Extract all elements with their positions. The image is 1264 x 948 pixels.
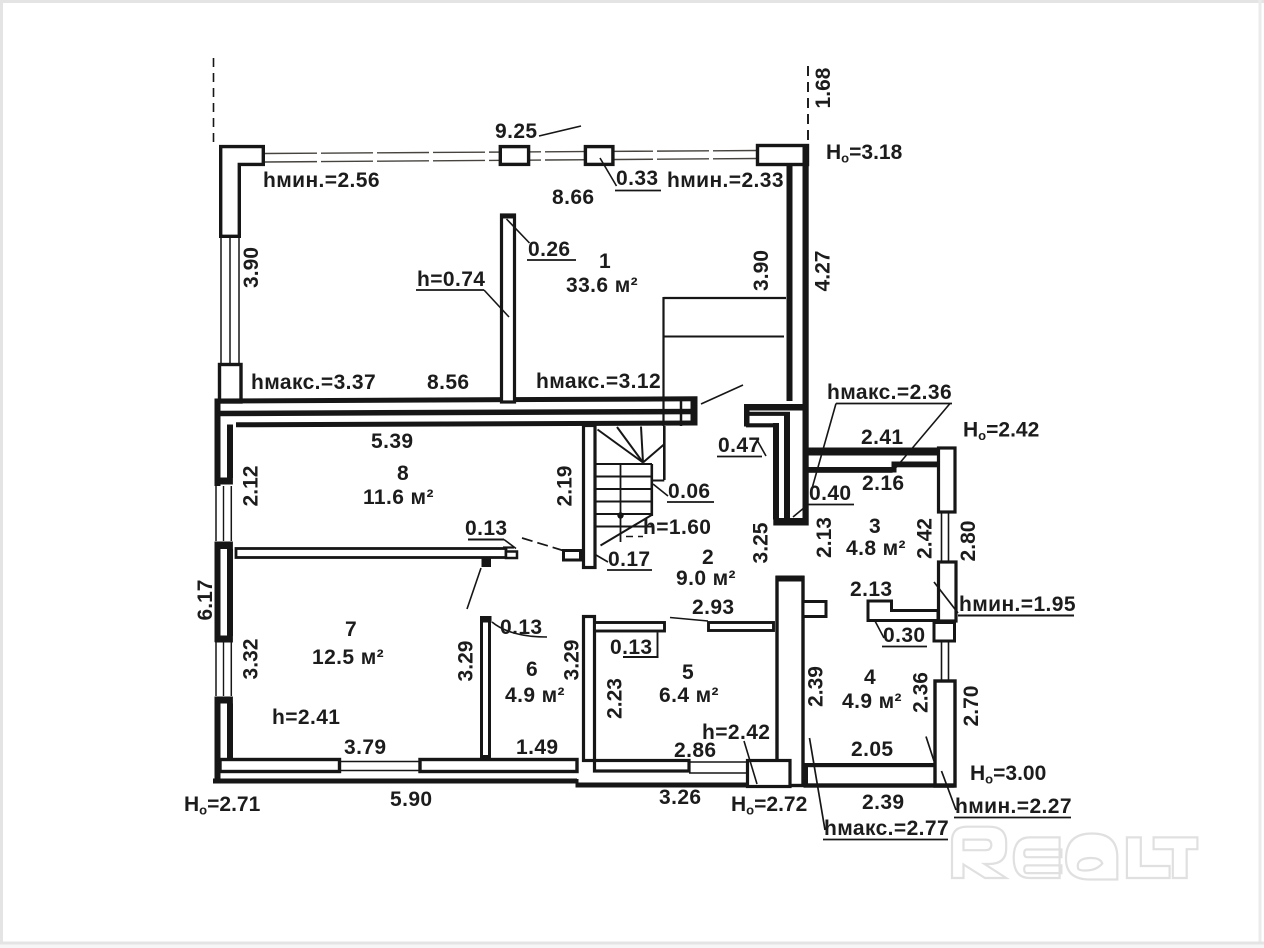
dim line 2.93 squiggle	[670, 618, 708, 622]
svg-text:4: 4	[864, 666, 876, 689]
wall west outer seg3	[215, 697, 221, 782]
leader h=0.74	[484, 290, 509, 317]
svg-text:2.12: 2.12	[240, 466, 263, 507]
wall annex south outer line	[804, 783, 955, 787]
wall room8 south step line	[503, 546, 514, 548]
window W3.90 lines	[220, 238, 222, 364]
leader 0.17	[596, 555, 608, 562]
page frame right	[1259, 0, 1262, 948]
wall south bar2	[420, 760, 577, 772]
svg-text:1.49: 1.49	[516, 736, 558, 759]
wall stair left	[584, 426, 596, 568]
wall annex south left cap	[804, 763, 809, 788]
svg-text:h=0.74: h=0.74	[417, 268, 485, 291]
svg-text:0.30: 0.30	[883, 624, 925, 647]
wall west outer seg1	[215, 399, 221, 487]
leader 0.26	[507, 219, 530, 243]
svg-text:2.13: 2.13	[850, 578, 892, 601]
svg-text:h=2.41: h=2.41	[272, 706, 340, 729]
wall south outer step	[576, 779, 579, 788]
svg-text:3.29: 3.29	[561, 640, 584, 681]
svg-text:2.86: 2.86	[674, 739, 716, 762]
svg-text:3.25: 3.25	[750, 522, 773, 563]
wall west cap2	[215, 542, 233, 550]
svg-text:2.19: 2.19	[554, 466, 577, 507]
leader hмакс.=2.36 a	[811, 404, 836, 493]
page frame top	[0, 0, 1264, 3]
wall rooms6-5	[584, 617, 595, 761]
band right cap	[691, 397, 698, 426]
svg-text:3: 3	[869, 515, 881, 538]
wall south outer line right	[577, 783, 748, 788]
underline hмин.=1.95	[958, 615, 1074, 617]
svg-text:6.4 м²: 6.4 м²	[659, 684, 719, 707]
wall annex east block	[939, 562, 957, 621]
svg-text:9.25: 9.25	[495, 120, 537, 143]
svg-text:Hо=3.18: Hо=3.18	[826, 141, 903, 166]
roof dashed line 1	[265, 151, 758, 154]
wall room1 interior cap	[500, 214, 516, 219]
roof dashed line 2	[265, 159, 758, 163]
svg-text:2.36: 2.36	[910, 672, 933, 713]
niche vertical	[662, 297, 664, 426]
underline hмакс.=2.77	[823, 839, 948, 841]
svg-text:33.6 м²: 33.6 м²	[566, 274, 638, 297]
window 3.26 lines	[689, 761, 748, 763]
wall stair tab	[564, 551, 581, 561]
window W3.32 lines	[215, 642, 217, 696]
svg-text:Hо=2.42: Hо=2.42	[963, 419, 1039, 444]
wall central upper mid line	[784, 412, 790, 520]
wall block W-left	[220, 365, 242, 403]
band line lower	[236, 423, 698, 425]
wall annex north bar	[806, 448, 955, 456]
dashed leader to stair tab	[522, 538, 563, 551]
svg-text:3.26: 3.26	[659, 786, 701, 809]
wall west cap4	[215, 697, 233, 704]
leader hмин.=1.95	[934, 582, 958, 613]
stair dash near h=1.60	[626, 536, 643, 538]
svg-text:11.6 м²: 11.6 м²	[363, 486, 434, 509]
stair opening connector	[680, 399, 683, 426]
svg-text:Hо=2.71: Hо=2.71	[184, 793, 261, 818]
svg-text:h=1.60: h=1.60	[643, 516, 711, 539]
svg-text:hмин.=1.95: hмин.=1.95	[959, 593, 1076, 616]
underline 0.33	[615, 190, 661, 192]
wall annex east top	[939, 448, 956, 512]
underline 0.17	[607, 569, 652, 571]
window 5.90 lines	[340, 761, 421, 763]
leader 2.05	[926, 737, 934, 762]
wall central upper cap	[773, 518, 808, 526]
wall west cap3	[215, 636, 233, 643]
svg-text:2.13: 2.13	[813, 517, 836, 558]
leader 0.33	[600, 158, 617, 186]
wall room8 south	[236, 549, 506, 558]
wall annex south inner line	[804, 763, 935, 767]
svg-text:2.39: 2.39	[862, 791, 904, 814]
underline h=0.74	[416, 289, 484, 291]
wall rooms7-6	[482, 618, 490, 757]
svg-text:0.33: 0.33	[616, 167, 658, 190]
page frame left	[0, 0, 3, 948]
svg-text:5.90: 5.90	[390, 788, 432, 811]
stair small step 0.06	[652, 480, 665, 482]
svg-text:hмакс.=2.77: hмакс.=2.77	[824, 817, 949, 840]
underline 0.06	[667, 501, 714, 503]
svg-text:0.13: 0.13	[465, 517, 507, 540]
svg-text:0.17: 0.17	[608, 548, 650, 571]
leader 0.13 room8	[504, 540, 516, 549]
svg-text:2.70: 2.70	[960, 686, 983, 727]
niche mid line	[664, 336, 785, 338]
leader 0.30	[875, 621, 884, 638]
svg-text:6: 6	[526, 658, 538, 681]
svg-text:2.05: 2.05	[851, 738, 893, 761]
wall room5 north left	[595, 623, 665, 632]
wall central lower top cap	[776, 576, 805, 582]
leader 0.13 into room7	[467, 568, 481, 609]
wall annex east lower	[935, 681, 955, 786]
svg-text:5: 5	[682, 661, 694, 684]
wall east inner line	[787, 164, 793, 401]
leader 0.06	[653, 484, 668, 496]
band top piece lip	[744, 404, 750, 427]
wall west outer seg2	[215, 542, 221, 643]
dashed vertical left	[213, 58, 215, 144]
page frame bottom strip	[0, 945, 1264, 948]
band top piece	[744, 404, 809, 411]
wall corner NW (L-shape)	[221, 147, 264, 237]
svg-text:hмин.=2.33: hмин.=2.33	[667, 169, 784, 192]
wall pier 9.25	[500, 147, 528, 165]
svg-text:2.80: 2.80	[957, 521, 980, 562]
svg-text:8.66: 8.66	[552, 186, 594, 209]
dashed vertical right	[807, 66, 809, 142]
svg-text:4.9 м²: 4.9 м²	[842, 690, 902, 713]
window annex east 2	[941, 642, 943, 680]
underline 0.13 room8	[468, 539, 504, 541]
svg-text:2.23: 2.23	[604, 678, 627, 719]
underline 0.47	[717, 456, 762, 458]
svg-text:0.06: 0.06	[668, 480, 710, 503]
wall west cap1	[215, 478, 233, 485]
svg-text:Hо=3.00: Hо=3.00	[970, 762, 1046, 787]
underline hмин.=2.27	[954, 817, 1071, 819]
svg-text:2.39: 2.39	[805, 666, 828, 707]
wall room3 north bar	[806, 467, 893, 473]
wall pier 0.33	[585, 147, 613, 165]
wall room3 north step	[892, 462, 897, 473]
svg-text:0.40: 0.40	[809, 482, 851, 505]
svg-text:2.16: 2.16	[862, 472, 904, 495]
leader 0.40	[793, 505, 808, 518]
wall east outer line	[803, 146, 809, 526]
leader hмакс.=2.36 b	[893, 404, 950, 472]
svg-text:7: 7	[345, 618, 357, 641]
stair right vert lower	[650, 464, 653, 516]
svg-text:3.79: 3.79	[344, 736, 386, 759]
wall central tab east	[803, 602, 826, 617]
wall room8 tab	[482, 558, 492, 567]
band line upper	[215, 399, 698, 401]
wall central lower	[777, 578, 803, 786]
svg-text:4.8 м²: 4.8 м²	[846, 537, 906, 560]
svg-text:3.32: 3.32	[240, 639, 263, 680]
wall south outer line left	[213, 779, 577, 784]
svg-text:hмин.=2.56: hмин.=2.56	[263, 169, 380, 192]
wall room8 south end piece	[506, 552, 517, 559]
underline hмакс.=2.36	[836, 403, 952, 405]
wall bar NE corner	[758, 146, 808, 165]
leader hмин.=2.27	[942, 771, 957, 810]
window annex east 1	[941, 513, 943, 562]
underline 0.13 room5	[623, 656, 659, 658]
wall south junction block	[748, 761, 791, 787]
wall room1 interior	[502, 215, 515, 402]
leader Hо=2.72	[744, 741, 757, 784]
wall central upper left line	[773, 423, 779, 520]
svg-text:3.90: 3.90	[240, 247, 263, 288]
svg-text:6.17: 6.17	[194, 580, 217, 621]
page frame bottom line	[0, 942, 1264, 945]
underline 0.40	[808, 504, 854, 506]
leader to hmax 2.36	[701, 385, 743, 404]
svg-text:hмакс.=3.12: hмакс.=3.12	[536, 370, 661, 393]
svg-text:2: 2	[702, 546, 714, 569]
svg-text:hмакс.=3.37: hмакс.=3.37	[251, 371, 376, 394]
svg-text:3.29: 3.29	[455, 641, 478, 682]
svg-text:4.27: 4.27	[812, 251, 835, 292]
wall room3 south (2.13)	[868, 601, 938, 621]
svg-text:8.56: 8.56	[427, 371, 469, 394]
stair steps	[597, 463, 653, 465]
band line middle	[215, 412, 698, 414]
svg-text:1: 1	[599, 250, 611, 273]
svg-text:0.47: 0.47	[718, 434, 760, 457]
wall south bar1	[220, 760, 340, 772]
svg-text:hмин.=2.27: hмин.=2.27	[955, 795, 1072, 818]
leader 9.25	[539, 126, 581, 136]
wall rooms7-6 top tab	[482, 616, 492, 623]
wall central top connector low	[746, 423, 778, 427]
svg-text:5.39: 5.39	[371, 430, 413, 453]
leader 0.13 room6	[492, 622, 547, 637]
svg-text:2.41: 2.41	[861, 426, 903, 449]
svg-text:hмакс.=2.36: hмакс.=2.36	[827, 381, 952, 404]
svg-text:2.93: 2.93	[692, 596, 734, 619]
svg-text:1.68: 1.68	[812, 67, 835, 108]
wall west inner seg2	[227, 549, 233, 636]
wall central top connector mid	[748, 412, 790, 416]
wall room3 north bar2	[896, 462, 939, 468]
wall room5 north right	[709, 623, 774, 631]
underline 0.30	[882, 646, 927, 648]
svg-text:2.42: 2.42	[914, 518, 937, 559]
stair right vert upper	[663, 426, 666, 480]
leader hмакс.=2.77	[810, 738, 826, 830]
svg-text:9.0 м²: 9.0 м²	[676, 567, 736, 590]
stair cut line	[601, 515, 653, 546]
svg-text:12.5 м²: 12.5 м²	[312, 646, 384, 669]
svg-text:3.90: 3.90	[750, 250, 773, 291]
wall west inner seg3	[227, 704, 233, 762]
svg-text:0.13: 0.13	[500, 616, 542, 639]
Realt watermark	[952, 827, 1197, 880]
svg-text:0.26: 0.26	[528, 238, 570, 261]
svg-text:0.13: 0.13	[610, 636, 652, 659]
window W2.12 lines	[215, 486, 217, 541]
wall west inner seg1	[227, 425, 233, 479]
svg-text:8: 8	[397, 462, 409, 485]
sideline 0.13 room5	[657, 633, 659, 658]
wall south bar3	[595, 761, 690, 772]
stair winders	[598, 430, 644, 463]
niche top line	[664, 297, 787, 299]
underline 0.26	[527, 259, 576, 261]
wall pier 0.30	[934, 623, 955, 642]
leader 0.47	[757, 440, 766, 456]
svg-text:4.9 м²: 4.9 м²	[505, 684, 565, 707]
stair walk line	[620, 464, 622, 542]
stair walk dot	[617, 512, 623, 518]
svg-text:Hо=2.72: Hо=2.72	[731, 793, 807, 818]
